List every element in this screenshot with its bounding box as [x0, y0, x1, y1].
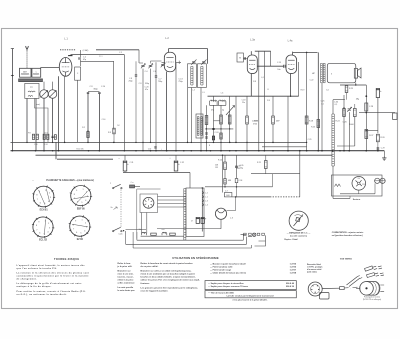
box [188, 64, 197, 88]
circle [289, 211, 308, 230]
wire coupling to tube1 grid [41, 66, 60, 68]
DIN plug [308, 282, 329, 299]
svg-text:C.9: C.9 [89, 86, 92, 88]
wire [75, 204, 76, 206]
svg-text:C.34: C.34 [238, 180, 242, 182]
svg-text:4M7: 4M7 [276, 121, 280, 123]
junction [135, 142, 136, 143]
capacitor C34b [235, 179, 238, 183]
svg-text:1.2737: 1.2737 [290, 269, 297, 271]
wire choke feed [213, 96, 215, 101]
wire [166, 57, 173, 59]
junction [64, 142, 65, 143]
wire y236 [141, 235, 184, 237]
dropper resistor hatched [332, 114, 334, 166]
paragraph tourne-disque [17, 264, 90, 296]
wire [113, 134, 115, 143]
circle [40, 90, 48, 98]
svg-text:4: 4 [85, 200, 86, 202]
svg-text:— Tête de lecture AG 3060: — Tête de lecture AG 3060 [208, 292, 235, 295]
junction [272, 142, 273, 143]
wire socket to strip b [158, 199, 187, 201]
wire [54, 135, 56, 137]
svg-text:C.5: C.5 [119, 52, 122, 54]
junction [155, 150, 157, 152]
wire left edge drop x12 [11, 49, 13, 151]
wire [44, 219, 45, 235]
svg-text:8: 8 [36, 225, 37, 227]
wire x187 down [187, 88, 189, 142]
wire C9 down [87, 94, 89, 142]
coil tap line [202, 188, 207, 232]
wire switch2 right [126, 229, 147, 231]
marquage CC detail [289, 211, 308, 230]
wire [210, 104, 227, 106]
junction [220, 150, 221, 151]
junction [306, 142, 307, 143]
wire [43, 137, 45, 139]
svg-text:1000: 1000 [349, 124, 353, 126]
wire [345, 86, 348, 88]
svg-text:R.26: R.26 [380, 137, 384, 139]
wire [32, 223, 34, 226]
wire [32, 193, 34, 196]
svg-text:ficateurs.: ficateurs. [141, 282, 151, 285]
wire [43, 135, 45, 137]
junction [124, 150, 126, 152]
circle [113, 230, 114, 231]
wire [265, 166, 268, 168]
wire [21, 79, 23, 82]
wire [39, 79, 41, 82]
wire x270 down [270, 51, 272, 66]
PU platine box left edge [136, 189, 138, 239]
wire [148, 198, 150, 200]
junction [210, 150, 212, 152]
wire [113, 131, 115, 133]
wire down to IF1 top [207, 49, 209, 64]
wire [346, 93, 348, 100]
svg-text:PLANCHETTE CABLAGES —(vue: PLANCHETTE CABLAGES —(vue intérieure) [46, 179, 94, 182]
wire [69, 222, 71, 225]
wire y172 down [189, 173, 191, 189]
svg-text:L.2: L.2 [205, 193, 208, 195]
wire [47, 137, 49, 139]
wire [33, 230, 35, 233]
junction [287, 150, 289, 152]
box [247, 55, 257, 74]
wire [317, 120, 320, 122]
wire y96 long [208, 95, 299, 97]
box [244, 233, 247, 235]
terminal tick x12 [11, 75, 14, 77]
wire dropper to mains [333, 197, 350, 199]
wire [343, 114, 346, 116]
wire elcapA up [124, 155, 126, 160]
resistor 4M7 [272, 116, 275, 124]
ground [382, 156, 386, 160]
wire dropper down to secteur [332, 166, 334, 198]
junction [52, 150, 54, 152]
svg-text:2: 2 [48, 223, 49, 225]
svg-text:matique à la fin du disque.: matique à la fin du disque. [17, 285, 52, 288]
circle [358, 182, 360, 184]
svg-text:TOURNE-DISQUE: TOURNE-DISQUE [54, 257, 79, 261]
box [196, 114, 203, 138]
wire x349 down [348, 112, 350, 151]
svg-text:9: 9 [75, 221, 76, 223]
svg-text:broches et deux câbles blindés: broches et deux câbles blindés. L'ayant … [141, 276, 196, 279]
fuse holders [375, 178, 386, 183]
wire [24, 79, 26, 82]
junction [332, 150, 334, 152]
resistor padder b1 [43, 134, 45, 139]
wire tube2 top cap [168, 49, 170, 53]
wire [236, 168, 238, 179]
junction [43, 150, 45, 152]
junction [135, 150, 137, 152]
wire y186 [205, 186, 273, 188]
wire [45, 216, 48, 218]
junction [150, 142, 151, 143]
junction [206, 142, 207, 143]
antenna [25, 46, 29, 51]
wire [26, 79, 28, 82]
wire [25, 79, 27, 82]
junction [58, 150, 60, 152]
svg-text:C.9: C.9 [139, 83, 142, 85]
svg-text:L.4: L.4 [205, 205, 208, 207]
svg-text:C.25: C.25 [321, 101, 325, 103]
HP socket box [393, 113, 397, 119]
wire x306 long down [306, 52, 308, 150]
tuning gang CV2 [48, 90, 56, 98]
wire [83, 185, 86, 187]
wire tube2 plate right [176, 61, 181, 63]
junction [312, 285, 313, 286]
wire [354, 104, 356, 109]
svg-text:R.3: R.3 [108, 132, 111, 134]
wire [89, 226, 91, 228]
refs box 1 [205, 281, 296, 290]
junction [87, 142, 88, 143]
wire x176 down [175, 63, 177, 151]
circle [121, 187, 122, 188]
IF transformer MF2 detector [196, 114, 203, 138]
svg-text:— Fiche bandeau mâle: — Fiche bandeau mâle [210, 265, 233, 268]
svg-text:1: 1 [81, 220, 82, 222]
wire x354 down [354, 117, 356, 147]
svg-text:mise à une anti-: mise à une anti- [118, 272, 134, 275]
box [224, 193, 232, 197]
junction [235, 196, 237, 198]
wire [174, 161, 178, 163]
speaker [354, 68, 361, 78]
junction [229, 142, 230, 143]
svg-text:Brancher sur celle-ci un c: Brancher sur celle-ci un câble stéréopho… [141, 270, 192, 273]
wire [220, 116, 223, 118]
wire gang2 down [52, 98, 54, 142]
wire [80, 235, 82, 237]
wire [347, 277, 358, 286]
wire [47, 135, 49, 137]
svg-text:2: 2 [49, 193, 50, 195]
resistor padder c [54, 135, 56, 140]
junction [52, 142, 53, 143]
wire tube4 top [292, 52, 294, 55]
wire tube2 cathode down [166, 72, 168, 151]
wire [40, 66, 42, 69]
jack plug 1 [365, 266, 383, 271]
wire elcapB up [175, 155, 177, 160]
svg-text:2: 2 [85, 222, 86, 224]
trimmer tube2 grid [161, 63, 166, 68]
wire [124, 171, 126, 173]
wire x298 down [298, 62, 300, 96]
wire [69, 229, 71, 232]
svg-text:996.8 49: 996.8 49 [286, 282, 295, 285]
svg-text:48μ: 48μ [356, 99, 359, 101]
circle [380, 178, 385, 183]
wire [51, 190, 53, 191]
junction [299, 150, 301, 152]
junction [220, 128, 221, 129]
wire det col1 [206, 105, 208, 150]
wire [62, 62, 70, 64]
wire det col3 [220, 105, 222, 150]
wire [365, 130, 368, 132]
junction [87, 130, 88, 131]
resistor R26 [377, 134, 380, 142]
resistor R27 [365, 130, 368, 139]
svg-text:(osc): (osc) [36, 104, 41, 106]
ferrite rod antenna [19, 79, 43, 82]
trimmer hum [347, 107, 352, 112]
wire x125 down [125, 231, 127, 244]
wire [205, 122, 208, 124]
resistor det col1 [205, 116, 208, 125]
wire CT3 down [142, 69, 144, 151]
svg-text:C.24: C.24 [215, 132, 219, 134]
svg-text:la voie doute pos: la voie doute pos [118, 289, 136, 292]
switch PU bottom [114, 227, 121, 230]
wire [353, 109, 356, 111]
capacitor grid C [79, 57, 80, 59]
wire x258 long down [258, 51, 260, 151]
wire MF1 down b [200, 88, 202, 151]
wire [36, 79, 38, 82]
svg-text:25n: 25n [242, 102, 245, 104]
junction [235, 150, 237, 152]
coil bumps a [142, 232, 147, 235]
wire y146 right [262, 146, 307, 148]
junction [229, 128, 230, 129]
junction [258, 150, 259, 151]
wire [265, 169, 267, 174]
wire OPT secondary down [321, 83, 323, 151]
junction [229, 150, 231, 152]
wire [353, 286, 358, 288]
cable to splitter [322, 287, 357, 291]
junction [213, 142, 214, 143]
wire [32, 137, 34, 139]
circle [143, 197, 154, 208]
wire [20, 79, 22, 82]
wire [123, 161, 127, 163]
tube L2 IF amplifier [164, 52, 175, 72]
junction [366, 150, 368, 152]
mains extension connector [356, 282, 384, 296]
svg-text:— Fiche bande rouge: — Fiche bande rouge [210, 268, 232, 271]
circle [253, 233, 256, 236]
speaker loop [327, 63, 356, 82]
circle [215, 208, 226, 219]
svg-text:C.15: C.15 [277, 62, 281, 64]
box [140, 194, 158, 213]
wire y173 [251, 173, 300, 175]
wire [272, 117, 275, 119]
wire [52, 227, 54, 229]
jack plug 2 [367, 273, 384, 278]
tuning gang CV1 [40, 90, 48, 98]
junction [220, 142, 221, 143]
wire [88, 220, 90, 221]
electrolytic box b [201, 217, 204, 223]
wire [74, 187, 75, 189]
junction [318, 150, 320, 152]
wire [29, 79, 31, 82]
wire [220, 134, 222, 136]
wire mains bottom [340, 193, 375, 195]
refs box 2 [205, 291, 296, 298]
svg-text:6: 6 [39, 233, 40, 235]
wire OPT left drop [317, 52, 319, 150]
wire [11, 48, 14, 50]
box [286, 55, 297, 74]
junction [191, 142, 192, 143]
junction [26, 142, 27, 143]
wire [322, 287, 339, 289]
output transformer [321, 63, 326, 83]
wire tube4 cathode down [290, 74, 292, 97]
wire tube3-tube4 link [257, 65, 283, 67]
wire [65, 72, 67, 76]
wire x225 down [224, 155, 226, 162]
wire top line3 [81, 60, 114, 62]
wire [377, 139, 380, 141]
box [332, 175, 383, 196]
svg-text:L: L [36, 71, 37, 73]
box [198, 64, 207, 88]
capacitor C9 [87, 92, 89, 93]
wire [113, 129, 115, 131]
wire [196, 218, 199, 220]
box [164, 52, 175, 72]
wire y99 link [333, 99, 345, 101]
box [257, 233, 260, 235]
wire [272, 96, 274, 116]
svg-text:R.27: R.27 [369, 135, 373, 137]
wire [31, 79, 33, 82]
svg-text:47n: 47n [145, 89, 148, 91]
wire gang2 up [52, 82, 54, 90]
junction [222, 155, 223, 156]
junction [365, 95, 367, 97]
svg-text:5: 5 [81, 202, 82, 204]
svg-text:(vu côté soudures): (vu côté soudures) [290, 235, 307, 238]
svg-text:EBF 80: EBF 80 [77, 208, 86, 210]
stereo list [210, 262, 297, 274]
wire [32, 135, 34, 137]
wire [54, 137, 56, 139]
junction [206, 128, 207, 129]
box [354, 69, 357, 79]
junction [318, 289, 319, 290]
wire lamp left [157, 228, 221, 230]
wire [365, 136, 368, 138]
junction [142, 150, 143, 151]
svg-text:350p: 350p [93, 88, 97, 90]
junction [150, 150, 152, 152]
svg-text:C.a: C.a [131, 182, 134, 184]
svg-text:Relier le bou-: Relier le bou- [118, 263, 132, 265]
wire osc box down [26, 98, 28, 142]
wire [272, 124, 274, 142]
wire [22, 79, 24, 82]
junction [306, 150, 308, 152]
PU platine box top edge [137, 188, 161, 190]
junction [290, 96, 291, 97]
wire x344 down [343, 95, 345, 151]
svg-text:ou G.O.), ou actionner la touc: ou G.O.), ou actionner la touche Arrêt. [17, 293, 68, 296]
svg-text:ECL 82: ECL 82 [39, 240, 47, 242]
wire gang1 down [43, 98, 45, 151]
wire [228, 121, 231, 123]
wire y240 long [137, 239, 243, 241]
capacitor C34 [235, 166, 238, 167]
svg-text:1: 1 [45, 190, 46, 192]
terminal strip 1 [184, 189, 186, 241]
wire [37, 79, 39, 82]
wire x236 down [235, 96, 237, 142]
svg-text:4: 4 [84, 231, 85, 233]
wire socket to strip a [158, 196, 187, 198]
svg-text:8: 8 [36, 195, 37, 197]
wire y112 stub [394, 112, 396, 114]
wire C7 up [155, 62, 157, 76]
junction [315, 292, 316, 293]
wire [50, 233, 52, 234]
circle [357, 180, 359, 182]
svg-text:R.11 15K: R.11 15K [77, 148, 85, 150]
svg-text:7: 7 [36, 229, 37, 231]
junction [166, 150, 168, 152]
wire [265, 161, 268, 163]
tube L1 converter [59, 58, 72, 77]
wire [87, 135, 89, 137]
junction [183, 150, 185, 152]
wire [243, 58, 247, 60]
box [205, 281, 296, 290]
wire [232, 196, 236, 198]
wire [377, 142, 379, 151]
junction [113, 142, 114, 143]
wire [72, 224, 88, 227]
svg-text:9: 9 [38, 222, 39, 224]
svg-text:C.41: C.41 [44, 144, 47, 146]
resistor x354 [353, 109, 356, 117]
wire [284, 65, 287, 67]
